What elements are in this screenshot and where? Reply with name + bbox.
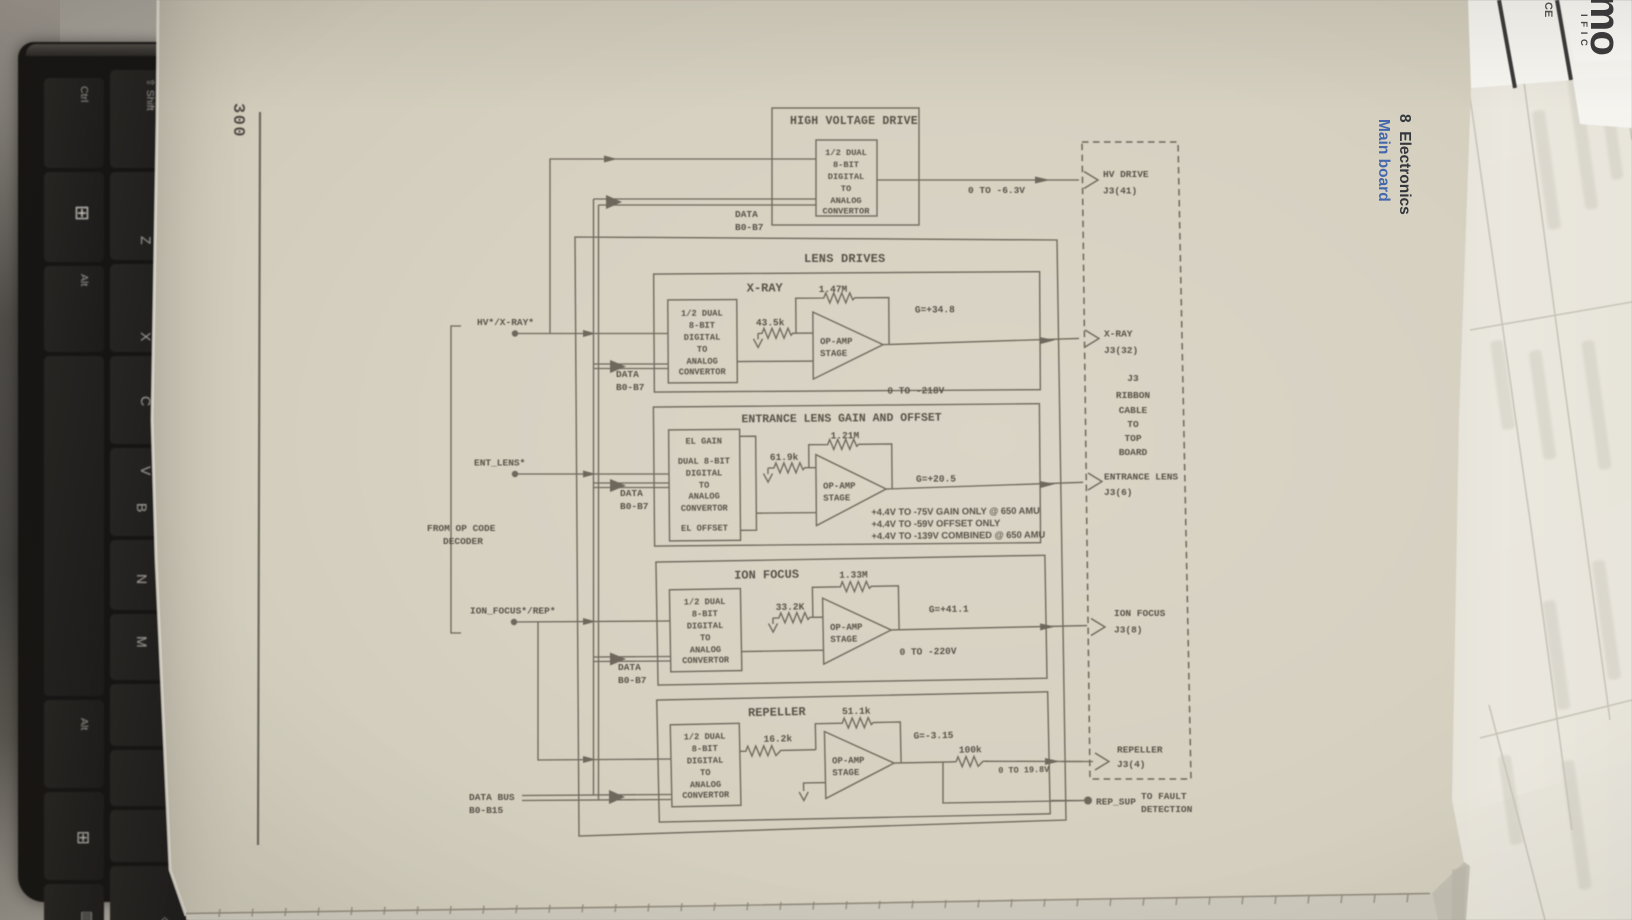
node HV*/X-RAY* — [512, 330, 518, 336]
faint ruled ghost lines on the under sheet — [1469, 0, 1632, 920]
perforation edge — [186, 894, 1430, 914]
wire: HV*/X-RAY* node to X-RAY DAC — [515, 330, 668, 337]
X-RAY section box — [654, 271, 1080, 398]
wire: entrance output to J3(6) — [886, 481, 1083, 490]
wire: branch down to repeller DAC — [538, 622, 671, 763]
op-amp U7 ion focus op-amp stage — [823, 597, 892, 664]
ground (ion focus) — [768, 618, 777, 632]
J3 ribbon cable dashed box — [1082, 142, 1191, 779]
chevron entrance lens — [1088, 473, 1102, 490]
ground (repeller) — [799, 792, 808, 801]
wire: resistor node to op-amp input — [813, 616, 823, 618]
wire: data bus branch to X-RAY DAC — [594, 360, 669, 373]
wire: x-ray output to J3(32) — [883, 337, 1079, 345]
chevron HV drive — [1084, 172, 1098, 189]
DAC U1 1/2 dual 8-bit convertor (high voltage drive) — [816, 140, 877, 216]
resistor 1.33M feedback — [812, 581, 899, 631]
resistor 61.9k — [768, 463, 809, 473]
ghost text blocks on under sheet — [1490, 60, 1624, 890]
chevron ion focus — [1091, 619, 1105, 636]
under sheets on right side — [1400, 0, 1632, 920]
wire: repeller output — [894, 762, 956, 763]
label J3 ribbon cable — [1116, 373, 1151, 458]
wire: REP_SUP sense loop — [943, 762, 1085, 803]
page footer rule — [258, 112, 260, 845]
DAC U8 1/2 dual 8-bit convertor (repeller) — [670, 723, 741, 806]
node ENT_LENS* — [512, 471, 518, 477]
wire: data bus branch to ion focus DAC — [594, 653, 671, 666]
HIGH VOLTAGE DRIVE outer box — [772, 108, 919, 225]
op-amp U9 repeller op-amp stage — [824, 730, 894, 798]
label gain G=+41.1 — [929, 604, 969, 616]
wire: data bus vertical pair — [594, 199, 599, 801]
ground (entrance) — [763, 468, 772, 482]
ION FOCUS section box — [656, 555, 1088, 685]
wire: DAC out to op-amp inverting input — [737, 360, 813, 362]
resistor 51.1k feedback — [815, 717, 901, 765]
node REP_SUP — [1084, 797, 1092, 805]
DAC U2 1/2 dual 8-bit convertor (x-ray) — [668, 300, 738, 383]
rotated chapter header — [1395, 114, 1413, 215]
white tab wedge below mo paper — [1573, 76, 1632, 128]
wire: ION_FOCUS*/REP* to ion focus DAC — [514, 618, 670, 625]
resistor 1.21M feedback — [809, 439, 892, 490]
label voltage range 0 TO -6.3V — [968, 185, 1025, 196]
label voltage range 0 TO 19.8V — [998, 765, 1050, 776]
thermo cover texts — [1581, 0, 1629, 55]
label voltage range 0 TO -220V — [899, 646, 956, 658]
wire: resistor node to op-amp input — [809, 467, 816, 469]
wire: ENT_LENS* to entrance DAC — [515, 471, 669, 478]
bracket FROM OP CODE DECODER — [451, 326, 461, 633]
wire: resistor node to op-amp input — [796, 332, 813, 334]
wire: repeller output stub to J3(4) chevron — [1061, 761, 1093, 763]
wire: op-amp non-inverting input stub — [804, 783, 826, 791]
wire: data bus horizontal pair into repeller DAC — [522, 790, 671, 804]
DAC U4 dual 8-bit convertor (EL gain / EL offset) — [669, 429, 741, 541]
label gain G=-3.15 — [913, 730, 953, 742]
label DATA BUS B0-B15 — [469, 792, 515, 816]
resistor 43.5k — [758, 328, 796, 338]
left edge shading on page — [152, 0, 260, 916]
brighter wedge tabs on right stack — [1470, 120, 1632, 330]
white 'mo' cover paper top right — [1468, 0, 1632, 88]
wire: data bus branch to entrance DAC — [594, 479, 670, 492]
bright page edge highlight along keyboard — [152, 0, 186, 916]
LENS DRIVES outer box — [575, 237, 1066, 836]
label voltage range 0 TO -218V — [887, 385, 944, 396]
wire: output to J3(4) — [985, 758, 1083, 765]
label gain G=+34.8 — [915, 304, 955, 315]
wire: EL gain / EL offset summing bracket — [740, 436, 757, 530]
bottom folder strip below perforation — [186, 893, 1438, 920]
wire: ion focus output to J3(8) — [891, 623, 1087, 633]
op-amp U5 entrance op-amp stage — [816, 454, 887, 526]
wire: riser from HV*/X-RAY* up to HIGH VOLTAGE DRIVE — [550, 156, 816, 334]
wire: REP_SUP line to fault detection — [1051, 800, 1083, 802]
fold shadow at page bottom-right corner — [1432, 862, 1470, 920]
wire: data bus branch to HV DAC — [594, 195, 817, 209]
op-amp U3 x-ray op-amp stage — [813, 312, 883, 379]
wire: bracket to op-amp inverting input — [756, 512, 816, 515]
page number 300 — [228, 103, 247, 138]
resistor 16.2k input — [740, 745, 816, 757]
resistor 1.47M feedback — [796, 293, 889, 346]
REPELLER section box — [657, 692, 1051, 822]
note voltage ranges — [871, 506, 1045, 542]
resistor 33.2K — [773, 612, 813, 623]
chevron X-RAY — [1085, 330, 1099, 347]
wire: HV drive output to J3(41) — [877, 177, 1079, 184]
ENTRANCE LENS GAIN AND OFFSET section box — [653, 403, 1083, 546]
DAC U6 1/2 dual 8-bit convertor (ion focus) — [669, 589, 741, 672]
resistor 100k output — [956, 756, 988, 767]
wire: DAC out to op-amp inverting input — [741, 650, 823, 651]
ground (x-ray) — [753, 333, 762, 347]
chevron repeller — [1095, 753, 1109, 770]
node ION_FOCUS*/REP* — [511, 619, 517, 625]
label gain G=+20.5 — [916, 473, 956, 484]
